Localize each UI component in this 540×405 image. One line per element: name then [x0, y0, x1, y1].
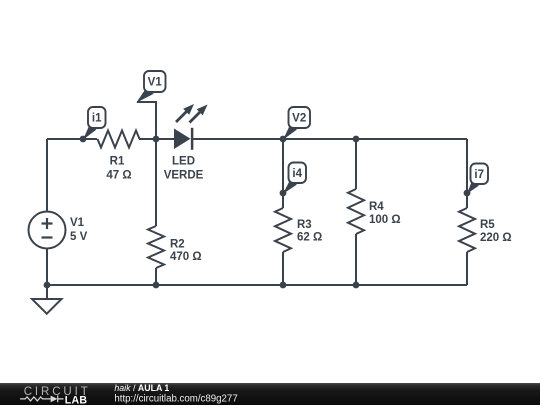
- svg-text:i1: i1: [92, 113, 102, 125]
- node dot V2: [280, 136, 287, 143]
- svg-text:haik / AULA 1: haik / AULA 1: [114, 383, 169, 393]
- resistor R1: [98, 131, 140, 148]
- probe V1 wedge: [136, 91, 154, 103]
- wire probe V1 connection: [137, 102, 156, 139]
- svg-text:VERDE: VERDE: [164, 170, 204, 182]
- svg-text:i4: i4: [292, 168, 302, 180]
- LED D1 cathode bar: [191, 128, 194, 150]
- svg-text:i7: i7: [474, 169, 484, 181]
- probe i7 box: [471, 164, 489, 185]
- svg-text:LED: LED: [172, 156, 195, 168]
- svg-text:R4: R4: [369, 201, 384, 213]
- wire LED cathode to right corner: [193, 138, 467, 140]
- node dot i7: [464, 190, 471, 197]
- wire R4 branch upper: [355, 139, 357, 189]
- resistor R5: [459, 208, 475, 252]
- svg-text:R2: R2: [170, 239, 185, 251]
- wire R2 branch upper: [155, 139, 157, 226]
- wire left branch lower: [46, 249, 48, 300]
- svg-text:R5: R5: [480, 219, 495, 231]
- probe i1 wedge: [83, 126, 97, 140]
- wire bottom rail: [47, 284, 467, 286]
- svg-text:470 Ω: 470 Ω: [170, 251, 202, 263]
- voltage source V1 minus sign: [42, 236, 53, 238]
- wire R2 branch lower: [155, 268, 157, 285]
- svg-text:62 Ω: 62 Ω: [297, 232, 322, 244]
- node dot R2 bottom: [153, 282, 160, 289]
- voltage source V1 plus sign: [42, 218, 53, 229]
- node dot ground: [44, 282, 51, 289]
- svg-text:LAB: LAB: [65, 394, 88, 405]
- svg-text:47 Ω: 47 Ω: [106, 170, 131, 182]
- node dot R2 top: [153, 136, 160, 143]
- svg-text:5 V: 5 V: [70, 231, 88, 243]
- voltage source V1 circle: [29, 212, 66, 249]
- probe i4 box: [289, 163, 307, 184]
- resistor R3: [275, 208, 291, 252]
- ground: [32, 299, 62, 314]
- LED D1 arrow 1 head: [183, 104, 194, 115]
- LED D1 arrow 2 shaft: [190, 112, 201, 123]
- svg-text:V1: V1: [70, 217, 85, 229]
- LED D1 arrow 1 shaft: [176, 111, 187, 122]
- wire R3 branch upper: [282, 139, 284, 208]
- wire R3 branch lower: [282, 252, 284, 285]
- svg-text:R3: R3: [297, 219, 312, 231]
- probe V1 box: [144, 71, 166, 92]
- LED D1 triangle: [174, 129, 191, 150]
- wire R5 branch lower: [466, 252, 468, 285]
- node dot i4: [280, 190, 287, 197]
- footer bar: [0, 383, 540, 405]
- probe V2 wedge: [283, 126, 297, 140]
- LED D1 arrow 2 head: [197, 105, 208, 116]
- resistor R2: [148, 226, 164, 268]
- svg-text:100 Ω: 100 Ω: [369, 214, 401, 226]
- logo diode triangle: [51, 396, 58, 403]
- wire R1 to LED: [139, 138, 174, 140]
- probe i4 wedge: [283, 181, 297, 194]
- resistor R4: [348, 189, 364, 234]
- wire left branch upper: [46, 139, 48, 212]
- svg-text:http://circuitlab.com/c89g277: http://circuitlab.com/c89g277: [114, 393, 237, 404]
- wire R5 branch upper: [466, 139, 468, 208]
- svg-text:R1: R1: [110, 156, 125, 168]
- node dot i1: [80, 136, 87, 143]
- probe i7 wedge: [467, 182, 479, 194]
- node dot R3 bottom: [280, 282, 287, 289]
- svg-text:V1: V1: [148, 77, 163, 89]
- node dot R4 top: [353, 136, 360, 143]
- wire top left segment: [47, 138, 97, 140]
- node dot R4 bottom: [353, 282, 360, 289]
- svg-text:220 Ω: 220 Ω: [480, 232, 512, 244]
- wire R4 branch lower: [355, 234, 357, 285]
- probe i1 box: [88, 107, 106, 128]
- logo resistor-diode line: [20, 396, 64, 403]
- probe V2 box: [289, 107, 311, 128]
- svg-text:V2: V2: [292, 113, 306, 125]
